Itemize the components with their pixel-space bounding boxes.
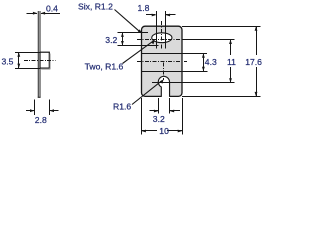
svg-text:4.3: 4.3 xyxy=(205,57,217,67)
bottom slot center ext line xyxy=(152,82,234,84)
dim 0.4 line left xyxy=(27,13,37,15)
svg-text:R1.6: R1.6 xyxy=(113,101,131,111)
plate vertical center line upper xyxy=(161,21,163,50)
dim 3.5 vertical xyxy=(18,52,20,68)
bottom slot (arch open to bottom) xyxy=(158,76,169,97)
svg-text:17.6: 17.6 xyxy=(245,57,262,67)
dim 3.2 left ext bottom xyxy=(118,45,159,47)
dim 2.8 ext left xyxy=(34,100,36,116)
boss xyxy=(40,52,49,68)
bar left line xyxy=(37,11,39,97)
dim 3.2 left ext top xyxy=(118,32,148,34)
dim 11 vertical xyxy=(230,40,232,56)
boss center line xyxy=(24,60,56,62)
dim 10 exts xyxy=(141,98,143,134)
dim 1.8 ext lines xyxy=(156,11,158,49)
dim 3.5 ext top xyxy=(15,52,40,54)
dim 4.3 vertical xyxy=(203,53,205,71)
solid line lower (4.3 bottom ref) xyxy=(142,71,208,73)
dim 3.2 left vertical xyxy=(122,32,124,45)
svg-text:1.8: 1.8 xyxy=(138,3,150,13)
svg-text:3.2: 3.2 xyxy=(105,35,117,45)
dim 17.6 vertical xyxy=(256,26,258,55)
plate top ext right xyxy=(182,26,260,28)
svg-text:2.8: 2.8 xyxy=(35,115,47,125)
plate bottom ext right xyxy=(182,96,260,98)
top slot xyxy=(152,33,172,43)
boss shadow right xyxy=(49,54,51,70)
solid line upper (4.3 top ref) xyxy=(142,53,208,55)
svg-text:10: 10 xyxy=(159,126,169,136)
dim 1.8 line xyxy=(146,14,156,16)
dim 2.8 line xyxy=(26,110,35,112)
dim 3.5 ext bottom xyxy=(15,68,40,70)
leader Six,R1.2 xyxy=(115,10,140,32)
leader Two,R1.6 xyxy=(123,41,154,63)
bar right line xyxy=(39,11,41,97)
svg-text:3.2: 3.2 xyxy=(153,114,165,124)
top slot center line xyxy=(137,39,182,41)
leader R1.6 xyxy=(132,81,162,105)
bottom slot vertical center line xyxy=(163,63,165,81)
svg-text:Two, R1.6: Two, R1.6 xyxy=(85,61,124,71)
svg-text:Six, R1.2: Six, R1.2 xyxy=(78,1,113,11)
svg-text:3.5: 3.5 xyxy=(2,57,14,67)
middle dash-dot center line xyxy=(137,61,187,63)
bar bottom cap xyxy=(38,96,41,98)
plate xyxy=(142,26,183,96)
boss shadow bottom xyxy=(41,68,50,70)
svg-text:11: 11 xyxy=(227,57,236,67)
dim 3.2 bottom line xyxy=(150,110,159,112)
dim 2.8 ext right xyxy=(49,100,51,116)
dim 3.2 bottom exts xyxy=(158,98,160,114)
dim 0.4 line right xyxy=(41,13,60,15)
dim 10 line xyxy=(141,130,157,132)
svg-text:0.4: 0.4 xyxy=(46,3,58,13)
